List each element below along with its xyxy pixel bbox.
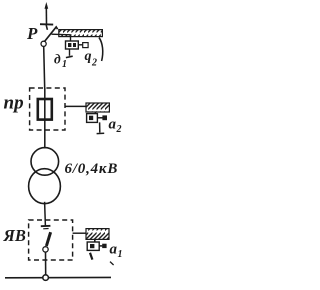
switch hinge: [43, 247, 48, 252]
wall bracket middle (hatched): [86, 103, 109, 112]
wall bracket bottom (hatched): [86, 229, 109, 240]
svg-text:д: д: [54, 52, 61, 67]
LV bus: [5, 276, 111, 278]
svg-text:2: 2: [91, 58, 97, 69]
svg-text:q: q: [85, 49, 92, 64]
incoming feeder arrow: [45, 5, 47, 24]
transformer secondary winding: [29, 169, 61, 204]
svg-text:пр: пр: [4, 93, 24, 114]
disconnector R fixed contact stub: [46, 25, 47, 30]
svg-text:6/0,4кВ: 6/0,4кВ: [65, 161, 119, 177]
drive a2: [87, 112, 107, 134]
stray tick: [110, 262, 114, 265]
svg-text:1: 1: [118, 249, 123, 260]
switch blade: [46, 232, 50, 246]
wall bracket top (hatched): [59, 30, 103, 61]
svg-text:ЯВ: ЯВ: [3, 226, 26, 245]
fuse PR body: [38, 99, 52, 120]
svg-text:а: а: [110, 242, 118, 258]
switch fixed contact: [41, 225, 51, 227]
transformer primary winding: [31, 148, 59, 176]
disconnector R blade: [44, 27, 58, 43]
wire through fuse: [44, 88, 46, 149]
terminal bar: [40, 23, 53, 25]
fuse cabinet PR (dashed): [30, 88, 65, 130]
disconnector R hinge: [41, 41, 46, 46]
bus node: [43, 275, 49, 281]
switch cabinet YAV (dashed): [29, 220, 73, 260]
wire PR box to wall drive a2: [66, 105, 87, 107]
wire R to fuse box: [44, 46, 45, 88]
svg-text:1: 1: [62, 59, 67, 70]
wire transformer to switch box: [44, 202, 47, 226]
wire YAV box to wall drive a1: [73, 232, 86, 234]
wire switch to bus: [45, 252, 47, 277]
wire blade to wall drive: [52, 33, 71, 36]
drive d1: [66, 36, 89, 58]
svg-text:а: а: [109, 117, 117, 133]
svg-text:Р: Р: [26, 24, 38, 43]
drive a1: [87, 239, 106, 259]
svg-text:2: 2: [116, 124, 122, 135]
